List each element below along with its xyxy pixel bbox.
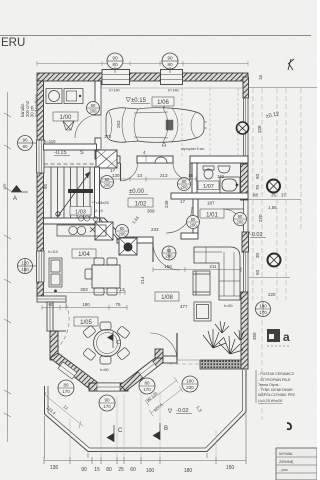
hall level and label bbox=[129, 189, 148, 195]
hall bottom wall bbox=[117, 237, 153, 243]
window marker 90/170 bay bottom bbox=[99, 395, 115, 411]
porch column lower bbox=[268, 254, 281, 267]
bathroom washbasin bbox=[218, 166, 230, 173]
exterior wall right: corner top bbox=[243, 77, 249, 98]
fireplace block bbox=[119, 238, 137, 255]
garage bottom wall bbox=[117, 156, 120, 163]
garden wall speckled south bbox=[200, 360, 248, 369]
room label 1/03 bbox=[70, 207, 91, 216]
right construction dashed lines bbox=[253, 88, 301, 420]
room 1/00 round sink bbox=[46, 89, 62, 104]
right wall window section bbox=[244, 252, 249, 292]
bottom dimension line bbox=[44, 414, 246, 464]
svg-text:25: 25 bbox=[118, 467, 124, 473]
door marker 180/230 terrace bbox=[182, 376, 198, 392]
door marker circle 80/200 garage-hall bbox=[101, 176, 114, 189]
stairs direction arrow bbox=[56, 172, 90, 216]
window marker circle 90/80 first bbox=[107, 53, 123, 73]
door marker circle 80/200 room 1/00 bbox=[87, 102, 100, 115]
wall 1/02-1/01 vertical bbox=[193, 199, 198, 235]
top dimension line above wall bbox=[37, 61, 248, 66]
sofa table bbox=[194, 302, 211, 321]
garage inner finish lines bbox=[101, 88, 243, 150]
right dim texts bbox=[252, 74, 287, 340]
interior wall room 1/00 bottom bbox=[44, 144, 97, 150]
entry door arc 1/01 bbox=[223, 209, 244, 230]
garage door right wall bbox=[244, 98, 249, 164]
left vertical dimension line bbox=[4, 92, 11, 442]
stairs-hall wall bbox=[95, 167, 100, 218]
window left wall upper bbox=[37, 140, 45, 173]
svg-text:60: 60 bbox=[130, 467, 136, 473]
bathroom bathtub bbox=[220, 177, 240, 193]
terrace door dashed extension bbox=[169, 363, 208, 365]
dining chairs bbox=[83, 322, 131, 364]
window W1 top wall bbox=[102, 70, 130, 93]
left vent note vertical text bbox=[3, 93, 39, 190]
dim line hall top bbox=[101, 177, 196, 182]
room 1/00 square sink bbox=[64, 89, 83, 104]
kitchen chairs bbox=[85, 258, 117, 295]
dim row living 150 211 bbox=[153, 267, 241, 272]
bay window sections bbox=[58, 361, 157, 392]
kitchen bottom-left window band bbox=[37, 296, 66, 302]
garage dashed parking lines bbox=[182, 88, 238, 156]
legend icon dark bbox=[267, 329, 280, 342]
dim row kitchen bottom bbox=[43, 290, 125, 295]
room label 1/08 bbox=[155, 292, 179, 301]
door marker circle 80/200 1/01 bbox=[187, 216, 200, 229]
bay wall bottom bbox=[89, 383, 128, 391]
room label 1/07 bbox=[198, 181, 219, 190]
stairs landing bar bbox=[68, 189, 93, 193]
porch column upper bbox=[267, 180, 280, 193]
room label 1/05 bbox=[74, 317, 98, 326]
armchair piece bbox=[193, 271, 210, 295]
bathroom top wall bbox=[190, 156, 248, 163]
column circle on garage door bbox=[237, 122, 249, 134]
room label 1/06 bbox=[152, 97, 174, 106]
right side porch lines bbox=[248, 88, 317, 278]
living room south wall left part bbox=[163, 356, 177, 363]
window W2 top wall bbox=[161, 70, 183, 93]
chimney kitchen bbox=[95, 222, 113, 240]
handwritten K mark bbox=[288, 59, 294, 70]
svg-text:- poc: - poc bbox=[279, 467, 288, 472]
stairs-kitchen wall bbox=[44, 218, 100, 224]
bay diagonal dimension lines bbox=[44, 377, 183, 428]
bottom dimension numbers bbox=[50, 465, 235, 474]
kitchen counter top bbox=[57, 225, 106, 236]
chimney block garage left bbox=[96, 150, 117, 168]
entry door marker circle bbox=[234, 213, 247, 226]
exterior wall left bbox=[37, 81, 44, 296]
car in garage bbox=[106, 104, 207, 146]
door arc hall-living bbox=[153, 243, 180, 270]
svg-text:180: 180 bbox=[184, 468, 193, 474]
terrace extension lines bbox=[70, 392, 216, 457]
marker B terrace bbox=[153, 423, 169, 440]
terrace outline inner bbox=[48, 370, 243, 448]
svg-text:100: 100 bbox=[146, 468, 155, 474]
dining round table bbox=[94, 330, 121, 357]
garage-hall door leaf and arc bbox=[120, 163, 122, 181]
handwritten hook bbox=[287, 423, 291, 429]
garage-hall door arc bbox=[173, 163, 190, 180]
title block bbox=[276, 448, 317, 480]
level -0.15 room 1/00 bbox=[54, 150, 84, 156]
door arc room 1/00 bbox=[75, 115, 98, 138]
window marker 180/170 right bbox=[256, 302, 271, 317]
kitchen counter left bbox=[49, 258, 62, 292]
garage level and label bbox=[126, 98, 150, 105]
window marker 80/170 bay right bbox=[139, 378, 155, 394]
bay wall right diagonal bbox=[120, 355, 165, 391]
window marker circle left lower bbox=[17, 258, 40, 274]
bay wall right vertical bbox=[155, 349, 163, 358]
level -0.02 right bbox=[246, 232, 266, 238]
kitchen diagonal corner wall bbox=[99, 218, 130, 248]
floor drain symbol 1/00 bbox=[63, 121, 74, 130]
stairs dashed line bbox=[44, 163, 96, 165]
legend icon ticks bbox=[268, 345, 288, 347]
door arc 1/01 bbox=[166, 207, 192, 233]
dim row bay top bbox=[42, 305, 127, 310]
marker C terrace bbox=[107, 425, 124, 442]
right wall below entry bbox=[242, 232, 249, 252]
entry door opening right wall bbox=[244, 200, 249, 232]
level -0.02 terrace bbox=[168, 408, 192, 414]
top rule line bbox=[0, 35, 311, 37]
room label 1/04 bbox=[72, 249, 96, 258]
column half-round on wall bbox=[155, 157, 167, 163]
window marker circle 90/80 left upper bbox=[18, 136, 41, 151]
door marker circle 80/200 living bbox=[162, 246, 176, 260]
svg-text:15: 15 bbox=[94, 467, 100, 473]
svg-text:90: 90 bbox=[81, 467, 87, 473]
window marker 80/170 bay left bbox=[58, 380, 74, 396]
bay wall left vertical bbox=[50, 331, 58, 360]
svg-text:80: 80 bbox=[106, 467, 112, 473]
stairs treads bbox=[44, 167, 96, 218]
terrace outline outer bbox=[45, 370, 247, 452]
hall radiator circles bbox=[78, 216, 97, 221]
window marker circle 90/80 second bbox=[162, 53, 178, 73]
interior wall room 1/00 right bbox=[95, 81, 101, 115]
right wall bottom section bbox=[241, 292, 248, 369]
room label 1/02 bbox=[128, 198, 153, 208]
section marker A bbox=[11, 185, 28, 202]
paper grain overlay bbox=[0, 0, 1, 1]
door marker circle 80/200 bath bbox=[178, 178, 191, 191]
exterior wall top bbox=[37, 73, 248, 81]
marker C at table bbox=[107, 332, 120, 348]
dim texts hall top bbox=[112, 173, 194, 232]
wall hall-bathroom vertical bbox=[192, 163, 197, 196]
kitchen table bbox=[92, 265, 120, 288]
terrace door opening arc bbox=[150, 333, 177, 360]
right wall bathroom section bbox=[241, 164, 249, 200]
wall segment left of bay bbox=[47, 302, 53, 331]
room label 1/00 bbox=[53, 112, 78, 121]
bathroom WC bbox=[203, 166, 214, 179]
legend text block bbox=[258, 372, 296, 403]
bay wall left diagonal bbox=[50, 353, 97, 390]
bathroom bottom wall bbox=[171, 193, 248, 199]
living room sofa bbox=[194, 247, 240, 300]
kitchen door marker circle bbox=[116, 225, 129, 238]
plants bbox=[203, 321, 244, 354]
window left wall lower bbox=[37, 251, 45, 282]
room label 1/01 bbox=[200, 209, 224, 219]
